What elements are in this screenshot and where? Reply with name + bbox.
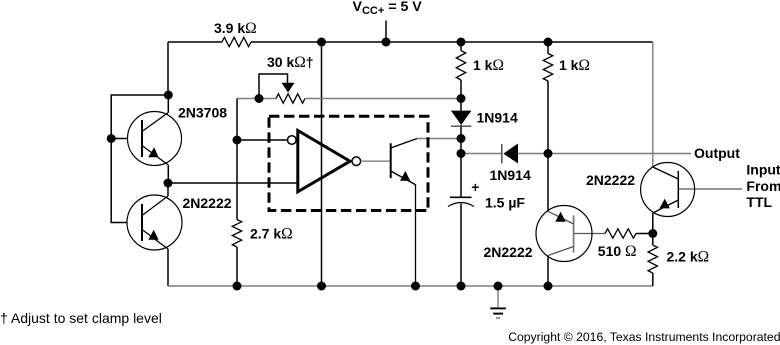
- wire right collector drop from rail: [652, 42, 654, 167]
- node O rail-2.7k: [233, 282, 242, 291]
- inverter gate U1 triangle: [298, 131, 350, 192]
- ground symbol: [490, 308, 506, 318]
- resistor R3 2.7 kOhm: [232, 220, 241, 248]
- wire Q4 emitter vertical: [652, 213, 654, 234]
- svg-text:+: +: [471, 179, 479, 195]
- wire node to left vertical: [111, 95, 168, 223]
- wire bottom rail: [237, 285, 653, 287]
- wire Q1 base: [111, 138, 127, 140]
- svg-text:1 kΩ: 1 kΩ: [473, 57, 504, 74]
- resistor R4 1 kOhm left top lead: [460, 42, 462, 51]
- wire Q3 collector vertical to ground rail: [547, 256, 549, 287]
- node Q rail-gate emitter: [411, 282, 420, 291]
- wire D2 to output node: [518, 153, 548, 155]
- wire gate collector to node: [417, 138, 461, 140]
- wire capacitor C1 top lead: [460, 154, 462, 198]
- diode D2 1N914 horizontal pointing left: [503, 144, 518, 164]
- resistor R4 1 kOhm left body: [456, 51, 465, 81]
- transistor Q1 2N3708: [128, 112, 182, 166]
- wire Q3 base to 510: [574, 233, 605, 235]
- wire node to node: [460, 139, 462, 154]
- ground stub: [497, 286, 499, 308]
- wire bottom rail left segment: [168, 285, 237, 287]
- diode D1 1N914 vertical: [451, 111, 472, 125]
- wire capacitor C1 bottom lead: [460, 204, 462, 287]
- wire diode D1 cathode lead: [460, 125, 462, 139]
- node I bias tee: [233, 136, 242, 145]
- node M output: [544, 149, 553, 158]
- node S rail-ground: [494, 282, 503, 291]
- svg-text:2N3708: 2N3708: [178, 105, 227, 121]
- svg-text:3.9 kΩ: 3.9 kΩ: [214, 20, 257, 37]
- svg-text:TTL: TTL: [746, 194, 772, 210]
- wire bubble to gate transistor base: [361, 160, 391, 162]
- wire 1k left bottom lead: [460, 80, 462, 99]
- node N 510-2.2k: [648, 229, 657, 238]
- wire Q4 base to TTL input: [678, 188, 742, 190]
- node K diode-collector: [457, 134, 466, 143]
- svg-text:30 kΩ†: 30 kΩ†: [267, 54, 314, 71]
- node F Q1 base tee: [107, 134, 116, 143]
- svg-text:2N2222: 2N2222: [586, 172, 635, 188]
- node E collector top left: [164, 91, 173, 100]
- resistor R2 30 kOhm pot body: [276, 94, 305, 103]
- wire Q1 emitter to node: [167, 165, 169, 183]
- resistor R5 1 kOhm right body: [543, 54, 552, 82]
- transistor Q5 (gate output, no circle): [391, 139, 417, 287]
- transistor Q4 2N2222 right (mirrored): [641, 163, 695, 217]
- resistor R6 510 Ohm body: [605, 229, 636, 238]
- wire Q2 collector vertical: [167, 183, 169, 196]
- svg-text:2N2222: 2N2222: [484, 244, 533, 260]
- svg-text:1N914: 1N914: [490, 167, 531, 183]
- node C rail-1k left: [457, 38, 466, 47]
- wire top rail right segment: [251, 41, 653, 43]
- node J 1k-diode: [457, 94, 466, 103]
- transistor Q3 2N2222 middle (mirrored, emitter up): [536, 206, 592, 262]
- svg-text:1.5 µF: 1.5 µF: [485, 195, 525, 211]
- svg-text:2.2 kΩ: 2.2 kΩ: [667, 249, 710, 266]
- wire left drop from rail to collector node: [167, 42, 169, 95]
- wire 2.2k bottom lead to rail: [652, 273, 654, 286]
- resistor R7 2.2 kOhm body: [648, 245, 657, 273]
- wire node to D2: [461, 153, 502, 155]
- svg-text:Copyright © 2016, Texas Instru: Copyright © 2016, Texas Instruments Inco…: [508, 330, 780, 344]
- U1 input bubble: [288, 136, 297, 145]
- transistor Q2 2N2222 left: [127, 195, 182, 250]
- node B rail-vcc: [382, 38, 391, 47]
- wire Q1 collector vertical: [167, 95, 169, 113]
- svg-text:Input: Input: [746, 162, 780, 178]
- wire node to inverter bubble input: [237, 139, 287, 141]
- capacitor C1 1.5uF: [450, 196, 472, 198]
- pot wiper arrow: [282, 83, 295, 93]
- svg-text:510 Ω: 510 Ω: [598, 243, 637, 260]
- wire Q2 emitter to bottom rail: [167, 249, 169, 286]
- wire output: [548, 153, 691, 155]
- wire diode D1 anode lead: [460, 99, 462, 111]
- wire top rail left segment: [168, 41, 222, 43]
- node R rail-cap: [457, 282, 466, 291]
- svg-text:1 kΩ: 1 kΩ: [559, 57, 590, 74]
- wire 2.7k bottom lead: [236, 247, 238, 286]
- node T rail-Q3: [544, 282, 553, 291]
- wire pot left lead: [237, 98, 276, 100]
- U1 output bubble: [352, 157, 361, 166]
- wire lower input to gate: [168, 182, 298, 184]
- wire left bias vertical x=237 upper: [236, 99, 238, 220]
- svg-text:Output: Output: [694, 145, 740, 161]
- wire vertical through gate x=321.5: [321, 42, 323, 286]
- wire 510 right lead: [636, 233, 653, 235]
- node L diode-cap: [457, 149, 466, 158]
- svg-text:2.7 kΩ: 2.7 kΩ: [250, 225, 293, 242]
- wire pot output to 1k node: [305, 98, 461, 100]
- resistor R1 3.9 kOhm: [222, 37, 251, 46]
- wire Q3 emitter vertical to output node: [547, 154, 549, 212]
- svg-text:1N914: 1N914: [477, 110, 518, 126]
- resistor R5 1 kOhm right top lead: [547, 42, 549, 54]
- node P rail-gate bottom: [317, 282, 326, 291]
- svg-text:† Adjust to set clamp level: † Adjust to set clamp level: [0, 310, 162, 326]
- svg-text:2N2222: 2N2222: [183, 195, 232, 211]
- svg-text:From: From: [746, 178, 780, 194]
- resistor R7 2.2 kOhm top lead: [652, 234, 654, 246]
- node G emitter-collector junction: [164, 179, 173, 188]
- wire pot wiper bracket: [259, 74, 288, 99]
- node D rail-1k right: [544, 38, 553, 47]
- dashed box (gate package): [269, 116, 428, 210]
- node H pot left: [255, 94, 264, 103]
- wire 1k right bottom lead: [547, 81, 549, 154]
- wire VCC stub: [385, 21, 387, 43]
- node A rail-gate: [317, 38, 326, 47]
